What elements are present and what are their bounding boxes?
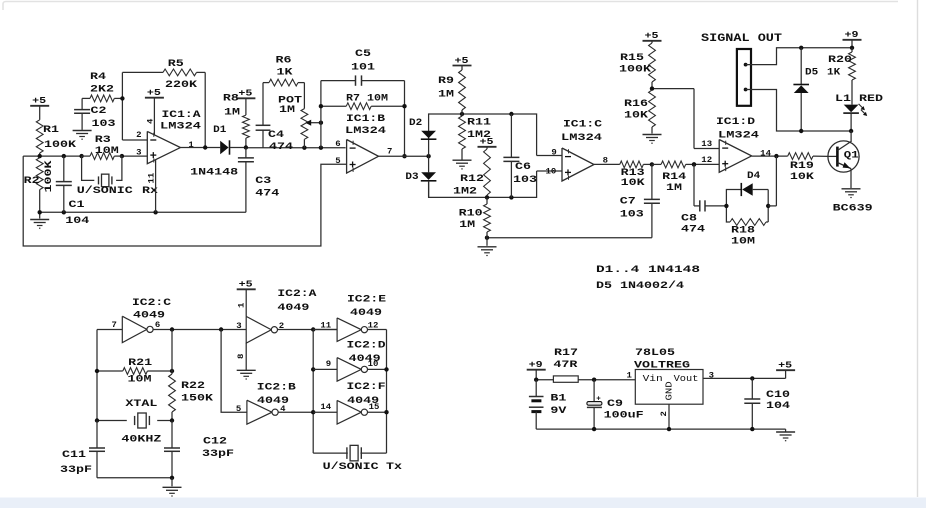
svg-text:Vin: Vin xyxy=(643,374,663,384)
labels IC2:B xyxy=(257,382,296,407)
capacitor C5 xyxy=(321,49,405,86)
svg-text:1: 1 xyxy=(627,371,633,380)
svg-text:+: + xyxy=(596,395,601,403)
svg-text:9: 9 xyxy=(551,149,557,158)
wire detector top rail xyxy=(429,112,537,156)
inverter IC2:D xyxy=(337,358,367,382)
resistor R5 xyxy=(122,59,205,147)
pin 1 label (IC2:A) xyxy=(238,302,247,308)
ground (supply) xyxy=(776,429,795,441)
labels IC2:A xyxy=(277,289,316,314)
inverter IC2:E xyxy=(337,318,367,342)
op-amp IC1:B xyxy=(345,114,386,173)
svg-text:R11: R11 xyxy=(467,117,491,128)
pin labels IC2:F xyxy=(320,403,379,412)
svg-text:1M: 1M xyxy=(224,107,240,118)
wire +5 rail xyxy=(703,370,786,380)
svg-text:R5: R5 xyxy=(168,59,184,70)
wire IC2:B output xyxy=(278,411,313,413)
LED L1 xyxy=(835,94,883,131)
svg-text:U/SONIC: U/SONIC xyxy=(323,461,379,473)
capacitor C4 xyxy=(256,125,293,153)
pin labels IC1:D xyxy=(701,140,771,165)
pin labels IC2:B xyxy=(236,405,286,414)
power +5 (R1) xyxy=(30,96,49,120)
power +5 (out) xyxy=(776,361,795,371)
svg-text:Q1: Q1 xyxy=(844,150,859,161)
svg-text:LM324: LM324 xyxy=(718,130,759,141)
wire IC1:C pin9 xyxy=(537,155,562,157)
svg-text:14: 14 xyxy=(760,149,771,158)
labels IC2:F xyxy=(347,382,386,407)
svg-text:9: 9 xyxy=(326,360,332,369)
wire IC2:C output xyxy=(153,327,246,331)
svg-text:C11: C11 xyxy=(62,450,86,461)
svg-text:+5: +5 xyxy=(455,56,469,66)
ground (R11) xyxy=(453,160,472,169)
svg-text:3: 3 xyxy=(136,149,142,158)
svg-text:R15: R15 xyxy=(620,53,644,64)
svg-text:15: 15 xyxy=(369,403,380,412)
inverter IC2:C xyxy=(122,316,153,342)
wire IC1:A pin11 xyxy=(155,160,157,213)
svg-text:220K: 220K xyxy=(165,80,197,91)
svg-text:1M2: 1M2 xyxy=(453,186,477,197)
wire R17 out xyxy=(578,378,635,382)
power +9 (B1) xyxy=(527,360,546,380)
svg-text:103: 103 xyxy=(620,209,644,220)
svg-text:2: 2 xyxy=(660,411,669,417)
wire IC1:A output xyxy=(180,145,220,149)
wire connector pin2 xyxy=(746,90,802,132)
resistor R17 xyxy=(553,348,578,382)
svg-text:4049: 4049 xyxy=(350,308,382,319)
wire feedback right xyxy=(402,81,406,159)
ground (R16) xyxy=(643,135,662,144)
svg-text:B1: B1 xyxy=(550,394,566,405)
resistor R21 xyxy=(95,358,174,386)
svg-text:47R: 47R xyxy=(553,360,577,371)
svg-text:10K: 10K xyxy=(624,111,648,122)
wire IC1:D pin12 xyxy=(692,162,719,166)
labels 78L05 xyxy=(634,348,690,372)
battery B1 xyxy=(529,380,567,429)
svg-text:C1: C1 xyxy=(69,200,85,211)
potentiometer POT 1M xyxy=(278,83,323,148)
regulator 78L05 xyxy=(635,370,703,405)
svg-text:10M: 10M xyxy=(95,146,119,157)
resistor R19 xyxy=(788,153,829,183)
pin 2 label (78L05) xyxy=(660,411,669,417)
svg-text:7: 7 xyxy=(112,321,118,330)
power +5 (R9) xyxy=(453,56,472,70)
resistor R16 xyxy=(624,90,655,134)
power +5 (IC1:A) xyxy=(145,88,164,135)
transistor Q1 xyxy=(828,131,859,188)
svg-text:1: 1 xyxy=(188,141,194,150)
svg-text:103: 103 xyxy=(92,119,116,130)
svg-text:101: 101 xyxy=(351,63,375,74)
svg-text:R4: R4 xyxy=(90,72,106,83)
resistor R7 xyxy=(321,94,405,110)
svg-text:C10: C10 xyxy=(766,390,790,401)
svg-text:474: 474 xyxy=(255,189,279,200)
crystal XTAL xyxy=(95,399,174,446)
svg-text:IC2:D: IC2:D xyxy=(347,340,386,351)
svg-text:10M: 10M xyxy=(128,375,152,386)
svg-text:D4: D4 xyxy=(747,171,760,182)
svg-text:R12: R12 xyxy=(460,174,484,185)
wire IC2:D input xyxy=(313,368,337,370)
svg-text:10: 10 xyxy=(546,168,557,177)
power +5 (R12) xyxy=(478,137,497,149)
pin 1 label (78L05) xyxy=(627,371,633,380)
pin labels IC2:C xyxy=(112,321,161,330)
svg-text:104: 104 xyxy=(766,401,790,412)
svg-text:4049: 4049 xyxy=(133,310,165,321)
resistor R12 xyxy=(453,149,490,197)
svg-text:R19: R19 xyxy=(790,161,814,172)
wire IC1:B pin5 loop xyxy=(23,156,346,246)
op-amp IC1:D xyxy=(719,140,751,173)
svg-text:R21: R21 xyxy=(128,358,152,369)
svg-text:SIGNAL OUT: SIGNAL OUT xyxy=(701,33,782,45)
svg-text:R22: R22 xyxy=(181,381,205,392)
svg-text:2: 2 xyxy=(136,131,142,140)
svg-text:Tx: Tx xyxy=(386,462,402,473)
resistor R22 xyxy=(169,330,213,421)
svg-text:474: 474 xyxy=(269,142,293,153)
labels IC1:D xyxy=(716,117,759,141)
wire D1 node xyxy=(244,145,346,150)
svg-text:LM324: LM324 xyxy=(345,126,386,137)
svg-text:IC1:A: IC1:A xyxy=(162,110,201,121)
page right border xyxy=(917,0,919,497)
diode D4 xyxy=(726,171,768,206)
resistor R10 xyxy=(459,197,491,237)
resistor R9 xyxy=(438,70,465,114)
svg-text:C5: C5 xyxy=(355,49,371,60)
svg-text:R3: R3 xyxy=(95,135,111,146)
svg-text:C6: C6 xyxy=(515,162,531,173)
svg-text:1M: 1M xyxy=(279,105,295,116)
svg-text:10K: 10K xyxy=(621,178,645,189)
svg-text:33pF: 33pF xyxy=(202,449,234,460)
svg-text:4: 4 xyxy=(146,118,155,124)
pin 4 label (IC1:A) xyxy=(146,118,155,124)
svg-text:IC1:C: IC1:C xyxy=(563,119,602,130)
svg-text:1K: 1K xyxy=(277,68,293,79)
svg-text:C12: C12 xyxy=(203,437,227,448)
power +5 (IC2:A) xyxy=(237,280,256,317)
svg-text:IC2:C: IC2:C xyxy=(132,298,171,309)
svg-text:IC2:F: IC2:F xyxy=(347,382,386,393)
resistor R2 xyxy=(24,158,55,213)
wire D4/R18 right xyxy=(724,156,776,222)
svg-text:+5: +5 xyxy=(239,280,253,290)
svg-text:R9: R9 xyxy=(438,76,454,87)
svg-text:11: 11 xyxy=(147,172,156,183)
svg-text:R2: R2 xyxy=(24,176,40,187)
svg-text:6: 6 xyxy=(335,140,341,149)
transducer U/SONIC Rx xyxy=(77,156,158,197)
capacitor C6 xyxy=(503,114,537,197)
svg-text:6: 6 xyxy=(155,321,161,330)
svg-text:+5: +5 xyxy=(32,96,46,106)
capacitor C10 xyxy=(744,378,790,429)
diode D3 xyxy=(405,156,436,197)
svg-text:1M: 1M xyxy=(438,89,454,100)
svg-text:100K: 100K xyxy=(619,65,651,76)
svg-text:D1..4 1N4148: D1..4 1N4148 xyxy=(596,265,700,276)
inverter IC2:F xyxy=(337,400,367,424)
wire R4/R5 node xyxy=(120,96,147,140)
svg-text:D1: D1 xyxy=(213,125,226,136)
svg-text:R8: R8 xyxy=(223,93,239,104)
wire IC1:D output xyxy=(752,154,788,158)
svg-text:D3: D3 xyxy=(405,172,418,183)
wire 78L05 gnd xyxy=(668,404,670,429)
svg-text:474: 474 xyxy=(681,225,705,236)
resistor R20 xyxy=(828,48,855,105)
wire IC1:B output xyxy=(379,154,431,158)
svg-text:D5 1N4002/4: D5 1N4002/4 xyxy=(596,280,684,292)
resistor R8 xyxy=(223,93,249,147)
resistor R14 xyxy=(652,161,696,194)
svg-text:+5: +5 xyxy=(238,89,252,99)
wire IC2:A output xyxy=(278,327,338,331)
svg-text:R17: R17 xyxy=(554,348,578,359)
capacitor C7 xyxy=(620,164,660,237)
wire R15/R16 node xyxy=(650,86,694,148)
pin 11 label (IC1:A) xyxy=(147,172,156,183)
pin labels IC2:A xyxy=(236,322,284,331)
labels IC2:C xyxy=(132,298,171,322)
svg-text:R10: R10 xyxy=(459,208,483,219)
pin labels IC1:B xyxy=(335,140,392,166)
svg-text:C9: C9 xyxy=(607,399,623,410)
op-amp IC1:C xyxy=(561,119,602,181)
label SIGNAL OUT xyxy=(701,33,782,45)
svg-text:1M: 1M xyxy=(666,183,682,194)
svg-text:33pF: 33pF xyxy=(60,465,92,476)
capacitor C3 xyxy=(238,148,279,213)
svg-text:+9: +9 xyxy=(529,360,543,370)
svg-text:R6: R6 xyxy=(276,56,292,67)
resistor R6 xyxy=(263,56,304,126)
wire IC1:C output xyxy=(594,163,620,165)
svg-text:C3: C3 xyxy=(255,176,271,187)
note D1..4 1N4148 xyxy=(596,265,700,276)
pin 8 label (IC2:A) xyxy=(237,353,246,359)
svg-text:R16: R16 xyxy=(624,99,648,110)
svg-text:1M: 1M xyxy=(459,220,475,231)
resistor R3 xyxy=(82,135,122,160)
svg-text:R1: R1 xyxy=(43,125,59,136)
capacitor C2 xyxy=(74,98,115,129)
svg-text:104: 104 xyxy=(65,216,89,227)
wire Tx left column xyxy=(311,330,315,454)
labels IC2:E xyxy=(347,294,386,319)
svg-text:8: 8 xyxy=(237,353,246,359)
svg-text:IC1:B: IC1:B xyxy=(346,114,385,125)
resistor R4 xyxy=(82,72,122,102)
power +9 (R20) xyxy=(843,30,862,48)
svg-text:R14: R14 xyxy=(662,172,686,183)
diode D1 xyxy=(190,125,246,179)
transducer U/SONIC Tx xyxy=(313,445,402,473)
capacitor C11 xyxy=(60,421,105,478)
svg-text:1N4148: 1N4148 xyxy=(190,168,238,179)
svg-text:3: 3 xyxy=(236,322,242,331)
svg-text:C7: C7 xyxy=(620,197,636,208)
resistor R11 xyxy=(459,114,491,160)
svg-text:XTAL: XTAL xyxy=(125,399,157,410)
wire Tx right column xyxy=(368,330,389,454)
wire bottom right rail xyxy=(799,129,853,133)
wire input rail xyxy=(23,154,147,158)
wire top right rail xyxy=(799,46,854,50)
svg-text:Vout: Vout xyxy=(674,374,699,384)
resistor R1 xyxy=(36,120,76,156)
svg-text:D2: D2 xyxy=(409,118,422,129)
svg-text:+5: +5 xyxy=(645,31,659,41)
wire IC2:E input xyxy=(313,329,337,331)
capacitor C9 xyxy=(587,380,644,429)
svg-text:+5: +5 xyxy=(778,361,792,371)
svg-text:LM324: LM324 xyxy=(561,133,602,144)
note D5 1N4002/4 xyxy=(596,280,684,292)
diode D2 xyxy=(409,118,436,139)
capacitor C12 xyxy=(164,421,234,478)
inverter IC2:A xyxy=(246,316,277,343)
svg-text:103: 103 xyxy=(513,175,537,186)
ground (R10) xyxy=(478,238,497,256)
pin labels IC2:E xyxy=(320,322,378,331)
svg-text:2K2: 2K2 xyxy=(90,85,114,96)
svg-text:78L05: 78L05 xyxy=(635,348,675,359)
wire supply bottom xyxy=(536,427,785,431)
wire ground rail xyxy=(38,210,246,214)
ground (IC2:A) xyxy=(237,343,256,379)
wire connector pin1 xyxy=(746,48,802,65)
page top border xyxy=(3,2,898,11)
connector SIGNAL OUT xyxy=(737,49,751,106)
pin labels IC1:C xyxy=(546,149,609,177)
svg-text:IC1:D: IC1:D xyxy=(716,117,755,128)
svg-text:+5: +5 xyxy=(147,88,161,98)
pin labels IC2:D xyxy=(326,360,379,369)
wire osc bottom xyxy=(97,476,174,480)
svg-text:7: 7 xyxy=(387,148,393,157)
svg-text:4049: 4049 xyxy=(277,303,309,314)
wire IC2:C input xyxy=(97,330,122,421)
svg-text:12: 12 xyxy=(701,156,712,165)
inverter IC2:B xyxy=(247,400,278,424)
svg-text:C8: C8 xyxy=(681,213,697,224)
power +5 (R8) xyxy=(236,89,255,116)
diode D5 xyxy=(793,48,840,131)
svg-text:R7 10M: R7 10M xyxy=(346,94,388,105)
power +5 (R15) xyxy=(643,31,662,43)
svg-text:U/SONIC: U/SONIC xyxy=(77,185,133,197)
svg-text:10: 10 xyxy=(368,360,379,369)
pin 3 label (78L05) xyxy=(709,371,715,380)
wire detector bottom rail xyxy=(429,171,537,200)
svg-text:IC2:E: IC2:E xyxy=(347,294,386,305)
svg-text:R20: R20 xyxy=(828,55,852,66)
svg-text:R18: R18 xyxy=(731,226,755,237)
svg-text:14: 14 xyxy=(320,403,331,412)
labels IC2:D xyxy=(347,340,386,365)
wire IC2:B input xyxy=(221,330,247,413)
pin labels IC1:A xyxy=(136,131,194,157)
wire C8 branch xyxy=(693,164,695,206)
svg-text:1K: 1K xyxy=(827,67,840,78)
wire feedback left xyxy=(319,81,323,148)
resistor R18 xyxy=(726,206,768,248)
svg-text:+5: +5 xyxy=(480,137,494,147)
svg-text:13: 13 xyxy=(701,140,712,149)
ground (Q1) xyxy=(842,189,861,198)
svg-text:D5: D5 xyxy=(805,67,818,78)
wire IC1:D pin13 xyxy=(694,148,719,150)
wire IC2:F input xyxy=(313,411,337,413)
svg-text:IC2:A: IC2:A xyxy=(277,289,316,300)
svg-text:BC639: BC639 xyxy=(833,204,873,215)
ground (C2) xyxy=(73,131,92,140)
op-amp IC1:A xyxy=(147,110,201,164)
capacitor C1 xyxy=(56,156,90,227)
wire +9 rail xyxy=(534,378,553,382)
svg-text:40KHZ: 40KHZ xyxy=(121,435,161,446)
svg-text:C4: C4 xyxy=(268,130,284,141)
svg-text:10K: 10K xyxy=(790,172,814,183)
svg-text:IC2:B: IC2:B xyxy=(257,382,296,393)
ground (R2) xyxy=(30,212,49,228)
svg-text:9V: 9V xyxy=(550,406,566,417)
ground (osc) xyxy=(163,478,182,496)
capacitor C8 xyxy=(681,200,726,235)
svg-text:100K: 100K xyxy=(44,140,76,151)
svg-text:100K: 100K xyxy=(44,161,55,193)
svg-text:L1 RED: L1 RED xyxy=(835,94,883,105)
svg-text:150K: 150K xyxy=(181,393,213,404)
svg-text:LM324: LM324 xyxy=(160,122,201,133)
label BC639 xyxy=(833,204,873,215)
svg-text:C2: C2 xyxy=(91,106,107,117)
svg-text:1: 1 xyxy=(238,302,247,308)
svg-text:GND: GND xyxy=(665,381,675,400)
svg-text:100uF: 100uF xyxy=(604,411,644,422)
svg-text:10M: 10M xyxy=(731,237,755,248)
svg-text:+9: +9 xyxy=(845,30,859,40)
wire IC1:C pin10 xyxy=(537,170,562,172)
page bottom strip xyxy=(0,498,926,509)
wire C7 to R10 node xyxy=(485,236,652,240)
resistor R15 xyxy=(619,43,655,89)
resistor R13 xyxy=(620,161,654,189)
